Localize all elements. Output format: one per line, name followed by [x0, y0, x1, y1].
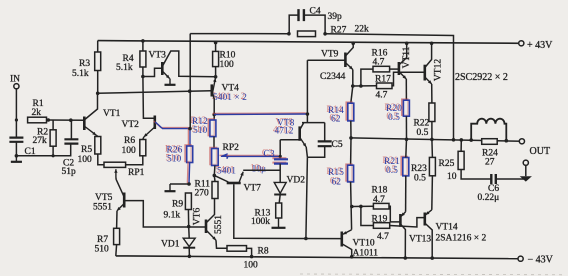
wire R2 top: [52, 120, 54, 130]
wire R26 to R9: [187, 162, 189, 185]
resistor R13: [276, 203, 282, 218]
svg-text:RP1: RP1: [128, 168, 145, 178]
resistor R10: [213, 51, 219, 66]
svg-text:OUT: OUT: [530, 146, 551, 157]
svg-text:100: 100: [244, 261, 259, 271]
svg-text:VD1: VD1: [161, 240, 180, 250]
wire RP1 wiper arrow: [115, 169, 117, 177]
wire VT2 emitter: [144, 127, 156, 138]
resistor R18: [373, 203, 389, 209]
svg-text:R6: R6: [124, 136, 135, 146]
wire VT11 emitter to R20: [405, 79, 407, 100]
svg-text:51p: 51p: [62, 167, 77, 177]
svg-text:0.22μ: 0.22μ: [478, 193, 500, 203]
resistor R12: [208, 119, 216, 137]
wire R16 to VT11 base: [390, 68, 399, 70]
svg-text:2k: 2k: [32, 108, 42, 118]
label C3 value: [250, 164, 266, 175]
wire output to R15: [350, 138, 352, 165]
node output left: [349, 136, 353, 140]
node blue line left: [212, 113, 216, 117]
wire C5 bottom lead: [307, 146, 324, 157]
svg-text:VT3: VT3: [149, 51, 167, 61]
wire line to R18: [352, 205, 374, 207]
wire R19 left: [361, 206, 374, 225]
node feedback takeoff: [452, 138, 456, 142]
svg-text:100: 100: [78, 155, 93, 165]
wire VT3 emitter: [163, 72, 170, 79]
ground R13: [272, 218, 286, 228]
svg-text:5.1k: 5.1k: [116, 63, 133, 73]
wire VT11 collector: [399, 43, 406, 64]
node blue line right: [306, 112, 310, 116]
wire to VT1 base: [48, 119, 84, 121]
svg-text:4.7: 4.7: [373, 58, 385, 68]
svg-text:R8: R8: [258, 247, 269, 257]
wire rail to R3: [97, 41, 99, 52]
resistor R24: [482, 139, 498, 145]
wire VT5 base to VT6 base: [125, 201, 206, 227]
svg-text:RP2: RP2: [223, 143, 240, 153]
svg-text:− 43V: − 43V: [528, 255, 554, 266]
svg-text:5551: 5551: [214, 215, 224, 234]
resistor R16: [373, 66, 390, 72]
label R14: [326, 105, 344, 116]
wire R2 bottom: [52, 146, 54, 156]
wire VT4 collector to R12: [212, 93, 214, 121]
svg-text:4.7: 4.7: [377, 232, 389, 242]
wire R18 to VT13 base: [389, 206, 400, 222]
svg-text:27k: 27k: [33, 136, 48, 146]
wire VT9 emitter: [346, 63, 353, 70]
resistor R11: [212, 182, 218, 199]
terminal speaker return: [523, 160, 528, 165]
label R21: [382, 156, 400, 167]
capacitor C1: [9, 138, 23, 142]
node A (VT1 collector): [96, 92, 100, 96]
wire C6 to ground: [496, 178, 526, 180]
resistor R8: [227, 246, 247, 252]
node R1/R2: [47, 118, 51, 122]
wire VT1 collector: [85, 95, 98, 120]
svg-text:C2344: C2344: [320, 72, 346, 82]
wire VT8 base column: [279, 140, 281, 159]
capacitor C2: [64, 139, 78, 143]
resistor R7: [114, 228, 120, 244]
wire VT14 emitter: [426, 210, 432, 215]
node R19 tap: [359, 205, 363, 209]
transistor VT1: [83, 117, 86, 131]
wire RP2 wiper: [220, 154, 229, 159]
svg-text:62: 62: [332, 178, 342, 188]
wire node A to VT4 base: [98, 91, 211, 94]
svg-text:10: 10: [447, 172, 457, 182]
wire feedback down: [189, 34, 191, 129]
node R16 tap: [359, 84, 363, 88]
wire VT11 emitter: [399, 72, 406, 79]
wire C3 to VD2: [279, 164, 281, 183]
resistor R17: [377, 83, 393, 89]
svg-text:C5: C5: [332, 140, 343, 150]
resistor R23: [429, 157, 435, 175]
wire R17 to VT12 base: [392, 72, 425, 86]
ground output: [520, 176, 532, 181]
wire R4 to VT2 base: [143, 77, 154, 119]
wire VT14 collector to rail: [425, 224, 432, 259]
svg-text:4.7: 4.7: [376, 91, 388, 101]
wire R10 bottom: [215, 67, 217, 77]
wire C1 bottom: [15, 142, 17, 156]
node R18 tap line: [350, 205, 354, 209]
wire R23 to VT14 emitter: [431, 176, 434, 210]
svg-text:VT10: VT10: [353, 239, 375, 249]
wire VT5 collector: [116, 178, 124, 197]
resistor R22: [429, 103, 435, 122]
wire R25 to C6: [461, 170, 491, 180]
svg-text:VT9: VT9: [321, 50, 339, 60]
transistor VT12: [423, 65, 426, 81]
wire VT9 collector: [346, 43, 353, 55]
svg-text:A1011: A1011: [353, 249, 379, 259]
svg-text:510: 510: [193, 126, 208, 136]
wire R12 to RP2: [213, 137, 215, 149]
label R15: [326, 167, 344, 178]
wire VT7 base down to VT10 base: [234, 184, 341, 238]
wire rail to R10: [215, 43, 217, 52]
wire VT3 collector to R10 bottom: [163, 51, 216, 77]
wire VD2 to R13: [279, 195, 280, 204]
svg-text:5401: 5401: [217, 167, 236, 177]
svg-text:+ 43V: + 43V: [527, 40, 553, 51]
resistor R2: [50, 130, 56, 146]
wire VT2 collector to feedback line: [154, 121, 190, 129]
svg-text:VT5: VT5: [95, 193, 113, 203]
wire VT7 right leg: [239, 172, 243, 182]
node R9 top: [187, 182, 191, 186]
wire VT13 collector to rail: [401, 225, 406, 259]
svg-text:R7: R7: [97, 235, 108, 245]
wire rail to R4: [142, 41, 144, 51]
resistor R15: [346, 164, 354, 182]
transistor VT10: [340, 232, 343, 247]
wire R5 to RP1: [98, 154, 104, 165]
transistor VT11: [398, 62, 401, 75]
wire output to R25: [460, 140, 462, 151]
svg-text:27: 27: [485, 158, 495, 168]
svg-text:R19: R19: [372, 215, 388, 225]
wire C5 top lead: [324, 123, 326, 141]
capacitor C4: [299, 9, 304, 21]
transistor VT9: [344, 53, 347, 68]
svg-text:2SA1216 × 2: 2SA1216 × 2: [436, 234, 487, 244]
wire VT9 base: [307, 59, 345, 61]
node VT10 base/bias: [304, 237, 308, 241]
wire R6 to RP1: [126, 156, 143, 165]
svg-text:5551: 5551: [93, 203, 112, 213]
wire VT5 emitter: [117, 204, 124, 211]
resistor R27: [298, 31, 316, 37]
wire VT6 emitter to R8: [216, 240, 227, 248]
svg-text:R17: R17: [375, 75, 391, 85]
wire RP2 bottom: [213, 166, 216, 176]
label R20: [384, 103, 402, 114]
svg-text:22k: 22k: [355, 25, 370, 35]
ground feedback divider: [165, 184, 176, 191]
diode VD2: [274, 182, 286, 193]
wire R9 bottom: [187, 210, 189, 227]
label VT4 type: [211, 92, 247, 103]
svg-text:0.5: 0.5: [388, 113, 400, 123]
node C2 top: [69, 118, 73, 122]
wire VT8 emitter: [300, 138, 306, 147]
svg-text:510: 510: [95, 245, 110, 255]
wire R7 to rail: [115, 245, 118, 256]
resistor R5: [95, 137, 101, 155]
transistor VT7: [227, 182, 241, 185]
svg-text:510: 510: [167, 155, 182, 165]
transistor VT5: [123, 193, 126, 208]
resistor R14: [346, 102, 354, 121]
wire VT12 collector: [425, 43, 431, 67]
terminal +43V: [519, 41, 524, 46]
node VT2 collector: [188, 127, 192, 131]
wire VT12 emitter to R22: [431, 84, 433, 103]
wire VT8 collector: [300, 123, 304, 129]
svg-text:R10: R10: [220, 51, 236, 61]
node R10/VT4: [214, 75, 218, 79]
wire C4 right: [304, 15, 325, 34]
svg-text:VT2: VT2: [122, 120, 140, 130]
wire R15 to VT10 emitter: [351, 182, 352, 230]
svg-text:2SC2922 × 2: 2SC2922 × 2: [455, 72, 508, 83]
svg-text:C4: C4: [310, 7, 321, 17]
wire R14 to output line: [350, 121, 352, 138]
wire VT9 base column: [306, 60, 308, 122]
wire feedback to R26: [188, 128, 190, 146]
svg-text:9.1k: 9.1k: [164, 211, 181, 221]
wire bias to VT10 base: [306, 157, 308, 238]
wire feedback to output: [325, 34, 453, 140]
resistor R19: [373, 223, 389, 229]
scan artifact line: [300, 273, 566, 276]
wire R21 to VT13 emitter: [405, 176, 407, 212]
resistor R6: [140, 140, 146, 156]
svg-text:R9: R9: [172, 200, 183, 210]
wire VT10 collector to rail: [342, 244, 351, 257]
wire to R14: [351, 86, 353, 103]
resistor R3: [95, 52, 101, 71]
capacitor C6: [491, 174, 496, 184]
resistor R21: [401, 157, 409, 176]
wire VT6 emitter: [207, 231, 217, 241]
svg-text:VT1: VT1: [103, 109, 121, 119]
svg-text:10μ: 10μ: [252, 165, 267, 175]
transistor VT13: [399, 214, 402, 227]
svg-text:R25: R25: [439, 159, 455, 169]
node feedback/W1: [188, 89, 192, 93]
wire C2 top: [70, 120, 72, 139]
node RP2/R11/VT7: [213, 174, 217, 178]
capacitor C3: [272, 158, 288, 163]
svg-text:5401 × 2: 5401 × 2: [213, 93, 247, 103]
resistor R20: [402, 99, 410, 116]
svg-text:IN: IN: [10, 75, 20, 85]
transistor VT2: [154, 116, 157, 130]
wire R8 to rail: [247, 248, 252, 256]
node C4 right: [323, 32, 327, 36]
wire node to R11: [213, 175, 216, 181]
resistor R9: [185, 193, 191, 210]
wire output to R23: [431, 139, 434, 157]
ground input: [11, 156, 22, 162]
svg-text:5.1k: 5.1k: [72, 69, 89, 79]
label C3: [262, 149, 275, 160]
diode VD1: [183, 238, 195, 246]
wire emitter line to R17: [353, 85, 377, 87]
wire VT6 collector to R11: [207, 199, 215, 223]
wire -43V rail: [116, 256, 521, 259]
svg-text:VT13: VT13: [409, 235, 431, 245]
label R26: [165, 145, 183, 156]
svg-text:VD2: VD2: [287, 176, 306, 186]
wire VT5 emitter to R7: [116, 211, 118, 229]
label VT7 type: [215, 166, 236, 177]
terminal OUT: [519, 139, 524, 144]
terminal IN: [14, 84, 19, 89]
wire VT7 right to VD2 node: [243, 169, 280, 171]
wire to ground stub: [170, 183, 189, 185]
terminal -43V: [518, 256, 523, 261]
wire C1 top: [15, 120, 17, 137]
transistor VT3: [161, 62, 164, 75]
potentiometer RP1: [104, 162, 126, 167]
wire VT12 emitter: [425, 78, 431, 85]
svg-text:R23: R23: [411, 164, 427, 174]
svg-text:270: 270: [195, 189, 210, 199]
wire VT1 emitter: [85, 127, 96, 136]
wire R22 to output: [431, 122, 433, 140]
wire RP2 wiper to C3 node: [226, 155, 280, 156]
wire feedback left segment: [190, 33, 289, 35]
wire VD1 to rail: [188, 248, 190, 257]
svg-text:R22: R22: [414, 119, 430, 129]
label VT8: [275, 118, 294, 129]
wire IN to R1: [15, 89, 17, 120]
capacitor C5: [318, 141, 332, 146]
wire R20 to output: [405, 116, 407, 139]
wire ground to terminal: [525, 165, 527, 176]
wire R16 left: [361, 69, 373, 86]
wire VT10 emitter: [343, 230, 352, 235]
wire VT8 collector node: [302, 122, 325, 124]
svg-text:R5: R5: [81, 145, 92, 155]
svg-text:VT14: VT14: [436, 223, 458, 233]
svg-text:0.5: 0.5: [414, 174, 426, 184]
svg-text:62: 62: [331, 115, 341, 125]
svg-text:100: 100: [122, 146, 137, 156]
resistor R25: [458, 151, 464, 169]
wire VT4 emitter: [212, 78, 215, 94]
wire R1 right: [47, 119, 49, 121]
wire to VD1: [188, 227, 191, 239]
svg-text:VT6: VT6: [193, 208, 203, 226]
svg-text:100k: 100k: [251, 217, 270, 227]
svg-text:4.7: 4.7: [373, 195, 385, 205]
wire VT13 emitter: [401, 212, 405, 217]
wire output to R21: [405, 139, 408, 157]
svg-text:39p: 39p: [328, 12, 343, 22]
node C4 left: [287, 32, 291, 36]
svg-text:R3: R3: [79, 59, 90, 69]
wire ground bus to C2: [16, 144, 70, 156]
node VT3 base: [141, 75, 145, 79]
svg-text:VT7: VT7: [244, 184, 262, 194]
svg-text:C3: C3: [264, 150, 275, 160]
wire C4 left: [289, 15, 298, 34]
wire VT8 base: [280, 139, 300, 141]
inductor L1: [471, 119, 506, 141]
resistor R1: [28, 117, 47, 123]
node VD1/VT6 base: [187, 225, 191, 229]
wire R3 bottom: [97, 71, 99, 94]
svg-text:0.5: 0.5: [417, 128, 429, 138]
wire +43V rail: [98, 41, 522, 44]
transistor VT4: [211, 84, 214, 96]
wire VT4 collector to VT9 base column: [213, 113, 308, 115]
wire output rail: [351, 138, 522, 141]
svg-text:0.5: 0.5: [386, 166, 398, 176]
wire R4 bottom: [142, 67, 144, 77]
potentiometer RP2: [210, 148, 218, 166]
svg-text:VT12: VT12: [433, 59, 443, 81]
transistor VT6: [205, 220, 208, 234]
resistor R4: [140, 51, 146, 67]
transistor VT14: [423, 213, 426, 226]
label R12: [190, 116, 208, 127]
node gnd1: [15, 154, 19, 158]
transistor VT8: [298, 126, 301, 140]
ground VT3: [165, 79, 176, 85]
wire R19 to VT14 base: [390, 218, 425, 227]
svg-text:R18: R18: [372, 186, 388, 196]
node VT9 emitter/R14: [351, 84, 355, 88]
svg-text:4712: 4712: [275, 127, 294, 137]
wire VT7 left leg: [214, 175, 228, 182]
svg-text:100: 100: [220, 60, 235, 70]
wire VT3 base: [143, 68, 161, 76]
resistor R26: [185, 145, 193, 163]
